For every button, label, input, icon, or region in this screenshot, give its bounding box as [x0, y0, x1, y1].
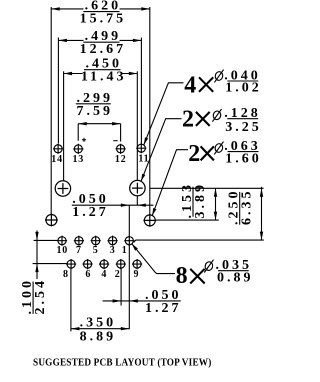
svg-text:10: 10 — [56, 245, 68, 256]
svg-text:1.27: 1.27 — [145, 301, 182, 316]
svg-text:7: 7 — [76, 245, 82, 256]
svg-text:2: 2 — [182, 106, 196, 132]
svg-text:11: 11 — [138, 154, 149, 165]
svg-text:13: 13 — [72, 154, 84, 165]
svg-text:2: 2 — [115, 269, 121, 280]
svg-text:3.89: 3.89 — [193, 182, 208, 219]
svg-text:1.60: 1.60 — [225, 151, 262, 166]
svg-text:1.27: 1.27 — [72, 205, 109, 220]
svg-text:4: 4 — [101, 269, 107, 280]
svg-text:4: 4 — [184, 72, 198, 98]
svg-text:.128: .128 — [224, 106, 261, 121]
svg-text:2.54: 2.54 — [33, 278, 48, 315]
svg-text:14: 14 — [51, 154, 63, 165]
svg-text:7.59: 7.59 — [76, 104, 113, 119]
svg-text:12: 12 — [115, 154, 127, 165]
svg-text:8.89: 8.89 — [80, 330, 117, 345]
svg-text:3.25: 3.25 — [225, 120, 262, 135]
svg-text:6.35: 6.35 — [240, 189, 255, 226]
svg-text:1.02: 1.02 — [225, 80, 262, 95]
svg-text:12.67: 12.67 — [80, 42, 127, 57]
svg-text:9: 9 — [133, 269, 139, 280]
svg-text:.350: .350 — [80, 316, 117, 331]
svg-text:SUGGESTED PCB LAYOUT (TOP VIEW: SUGGESTED PCB LAYOUT (TOP VIEW) — [33, 357, 212, 368]
svg-text:15.75: 15.75 — [80, 12, 127, 27]
svg-text:6: 6 — [85, 269, 91, 280]
svg-text:8: 8 — [63, 269, 69, 280]
svg-text:0.89: 0.89 — [217, 270, 254, 285]
svg-text:5: 5 — [93, 245, 99, 256]
svg-text:3: 3 — [110, 245, 116, 256]
svg-text:2: 2 — [188, 141, 202, 167]
svg-text:11.43: 11.43 — [81, 70, 127, 85]
svg-text:1: 1 — [122, 245, 128, 256]
svg-text:8: 8 — [176, 263, 190, 289]
